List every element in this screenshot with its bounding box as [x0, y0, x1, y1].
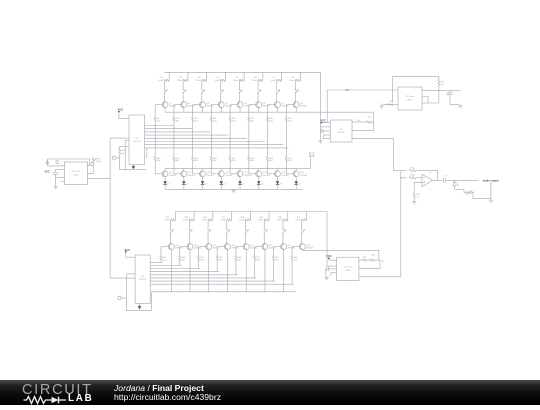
svg-text:2N3904: 2N3904 [212, 248, 220, 250]
wire U1 clock pin [125, 139, 129, 141]
svg-text:1kΩ: 1kΩ [288, 121, 292, 123]
wire column 6 upper [257, 80, 259, 88]
resistor R17 1kΩ [154, 157, 156, 162]
wire Q6 base lead [249, 104, 257, 106]
svg-text:74HC595: 74HC595 [133, 141, 141, 143]
wire U6 left rail [125, 274, 127, 311]
svg-text:10kΩ: 10kΩ [410, 175, 415, 177]
wire op-amp input trunk [400, 171, 402, 277]
wire base rail column 2 lower [173, 122, 175, 157]
wire Q11 emitter [202, 177, 204, 181]
resistor R33 [453, 183, 456, 186]
svg-text:1kΩ: 1kΩ [163, 259, 167, 261]
wire column 4 bus stub [224, 72, 226, 80]
wire Q11 base lead [193, 173, 201, 175]
svg-text:1kΩ: 1kΩ [176, 160, 180, 162]
wire column 2 bus stub [187, 72, 189, 80]
svg-text:2N3904: 2N3904 [169, 106, 177, 108]
wire bottom base rail 4 to bus [216, 261, 218, 272]
wire column 5 to Q5 [238, 94, 240, 102]
wire top bus into U3 pin 2 [321, 126, 331, 128]
svg-text:1kΩ: 1kΩ [232, 160, 236, 162]
wire Q8 emitter to sense bus [295, 108, 297, 113]
svg-text:1MΩ: 1MΩ [96, 161, 101, 163]
wire base rail column 5 lower [229, 122, 231, 157]
wire base rail column 4 lower [210, 122, 212, 157]
capacitor C2 10nF [53, 172, 59, 174]
svg-text:1kΩ: 1kΩ [250, 121, 254, 123]
resistor R25 10kΩ [119, 147, 121, 149]
wire non-inverting input [414, 182, 422, 192]
svg-text:LM555: LM555 [73, 174, 79, 176]
resistor R31 10kΩ [409, 177, 416, 180]
wire bottom data bus line 6 [150, 277, 256, 279]
svg-text:VCC: VCC [44, 170, 49, 173]
resistor R35 100Ω [189, 219, 194, 221]
svg-text:D8: D8 [299, 184, 301, 186]
svg-text:1kΩ: 1kΩ [157, 121, 161, 123]
switch SW4 [220, 88, 222, 91]
wire LED D8 to ground bus [295, 184, 297, 189]
svg-text:1kΩ: 1kΩ [219, 259, 223, 261]
wire bottom column 8 to Q24 [301, 234, 303, 244]
svg-text:2N3904: 2N3904 [225, 175, 233, 177]
transistor Q17 2N3904 [168, 244, 174, 250]
wire bottom column 1 upper [170, 220, 172, 228]
svg-text:LM555: LM555 [345, 270, 351, 272]
wire bottom base rail 8 [291, 247, 293, 256]
wire Q22 emitter drop [264, 250, 266, 292]
capacitor C7 [330, 265, 332, 267]
ground U4 right [459, 104, 461, 105]
wire sense bus drop to U3 [352, 112, 374, 131]
svg-text:1kΩ: 1kΩ [213, 121, 217, 123]
wire bottom column 1 to Q17 [170, 234, 172, 244]
wire bottom base rail 2 [179, 247, 181, 256]
logo LAB text [68, 393, 94, 404]
svg-text:100Ω: 100Ω [277, 220, 282, 222]
svg-text:100Ω: 100Ω [252, 80, 257, 82]
wire Q11 collector from collector bus [201, 169, 203, 171]
switch SW16 [301, 227, 303, 230]
resistor R12 1kΩ [210, 117, 212, 122]
wire Q14 emitter [258, 177, 260, 181]
svg-text:2N3904: 2N3904 [169, 175, 177, 177]
resistor R48 1kΩ [272, 256, 274, 261]
wire bottom base rail 1 to bus [160, 261, 162, 263]
capacitor C3 10nF [449, 91, 451, 93]
resistor R11 1kΩ [192, 117, 194, 122]
svg-text:2N3904: 2N3904 [175, 248, 183, 250]
svg-text:2N3904: 2N3904 [188, 175, 196, 177]
LED D8 [294, 181, 298, 184]
resistor R14 1kΩ [248, 117, 250, 122]
ground U2 [55, 185, 57, 186]
wire Q2 base lead [174, 104, 182, 106]
wire R27 to U4 pins [422, 85, 439, 103]
wire U5 loop top [359, 259, 363, 261]
wire U2 output to vertical trunk [87, 178, 110, 180]
wire VCC to U1 [119, 113, 129, 119]
resistor R37 100Ω [227, 219, 232, 221]
svg-text:D1: D1 [167, 184, 169, 186]
wire volume tap [454, 180, 456, 182]
wire LED D2 to ground bus [183, 184, 185, 189]
resistor R42 1kΩ [160, 256, 162, 261]
IC U3 74HC165 body [330, 120, 352, 142]
wire bottom column 2 upper [188, 220, 190, 228]
wire U4 output [422, 90, 460, 92]
svg-text:R29: R29 [368, 117, 371, 119]
wire serial input to U1 [110, 137, 129, 139]
wire vertical trunk [109, 138, 111, 278]
wire base rail to Q13 [229, 161, 231, 173]
resistor R35 [370, 259, 375, 261]
resistor R27 1kΩ [438, 80, 440, 86]
wire bottom column 6 upper [263, 220, 265, 228]
ground op-amp [413, 200, 415, 201]
wire drop to U3 VCC node [326, 90, 328, 122]
wire Q2 emitter to sense bus [183, 108, 185, 113]
wire Q24 base lead [292, 246, 301, 248]
transistor Q1 2N3904 [162, 102, 168, 108]
capacitor C6 [118, 296, 121, 299]
svg-text:74HC595: 74HC595 [139, 279, 147, 281]
resistor R43 1kΩ [179, 256, 181, 261]
wire Q17 base lead [161, 246, 170, 248]
wire LED D1 to ground bus [164, 184, 166, 189]
resistor R20 1kΩ [210, 157, 212, 162]
transistor Q21 2N3904 [243, 244, 249, 250]
ground U1 [132, 165, 134, 166]
LED D1 [163, 181, 167, 184]
transistor Q13 2N3904 [237, 171, 243, 177]
wire Q16 emitter [295, 177, 297, 181]
wire Q1 emitter to sense bus [164, 108, 166, 113]
wire Q6 emitter to sense bus [258, 108, 260, 113]
wire column 8 upper [295, 80, 297, 88]
wire column 6 bus stub [262, 72, 264, 80]
wire data bus line 8 [145, 147, 289, 149]
transistor Q15 2N3904 [274, 171, 280, 177]
wire column 7 upper [276, 80, 278, 88]
wire column 2 upper [182, 80, 184, 88]
wire bottom base rail 6 to bus [254, 261, 256, 278]
wire LED D4 to ground bus [220, 184, 222, 189]
wire Q1 base lead [155, 104, 163, 106]
capacitor C1 [112, 156, 115, 159]
wire bottom base rail 1 [160, 247, 162, 256]
ground U5 [326, 276, 328, 277]
wire bottom column 7 to Q23 [282, 234, 284, 244]
resistor R40 100Ω [283, 219, 288, 221]
wire pot wiper [87, 164, 93, 173]
wire bottom column 7 upper [282, 220, 284, 228]
wire Q12 emitter [220, 177, 222, 181]
resistor R23 1kΩ [266, 157, 268, 162]
wire column 6 to Q6 [257, 94, 259, 102]
wire U3 output drop to op-amp [393, 139, 395, 171]
resistor R32 1kΩ [413, 193, 415, 199]
wire control input to U4 [327, 89, 398, 91]
svg-text:1kΩ: 1kΩ [288, 160, 292, 162]
wire U2 pin 7 stub [61, 180, 65, 182]
wire bottom base rail 4 [216, 247, 218, 256]
wire LED ground bus [165, 188, 302, 190]
ground U4 left [381, 105, 383, 106]
svg-text:1kΩ: 1kΩ [269, 121, 273, 123]
svg-text:74HC165: 74HC165 [337, 132, 344, 134]
wire Q12 collector from collector bus [220, 169, 222, 171]
svg-text:1kΩ: 1kΩ [275, 259, 279, 261]
wire U3 output pin 1 chain [352, 121, 367, 123]
resistor R16 1kΩ [285, 117, 287, 122]
wire Q7 emitter to sense bus [276, 108, 278, 113]
IC U2 555 timer body [64, 162, 87, 184]
svg-text:R34: R34 [363, 256, 366, 258]
wire VCC to U6 [126, 253, 135, 257]
headphone jack J1 [464, 189, 466, 192]
wire bottom data bus line 5 [150, 274, 238, 276]
transistor Q2 2N3904 [181, 102, 187, 108]
wire Q21 emitter drop [245, 250, 247, 292]
svg-text:D2: D2 [186, 184, 188, 186]
wire Q21 base lead [236, 246, 245, 248]
wire Q5 base lead [230, 104, 238, 106]
svg-text:10k: 10k [357, 120, 360, 122]
wire base rail column 6 lower [248, 122, 250, 157]
wire bottom data bus line 2 [150, 265, 182, 267]
svg-text:1kΩ: 1kΩ [200, 259, 204, 261]
wire Q17 emitter drop [170, 250, 172, 292]
svg-text:D3: D3 [205, 184, 207, 186]
wire Q7 base lead [268, 104, 276, 106]
wire bottom column 8 upper [301, 220, 303, 228]
wire bottom base rail 3 to bus [197, 261, 199, 269]
wire column 5 upper [238, 80, 240, 88]
wire collector bus riser [309, 157, 311, 168]
resistor R19 1kΩ [192, 157, 194, 162]
resistor R10 1kΩ [173, 117, 175, 122]
logo resistor zigzag [24, 396, 52, 403]
wire bottom column 5 to Q21 [245, 234, 247, 244]
wire base rail column 4 [210, 105, 212, 117]
svg-text:2N3904: 2N3904 [244, 175, 252, 177]
transistor Q6 2N3904 [256, 102, 262, 108]
wire base rail column 3 lower [192, 122, 194, 157]
resistor R2 100Ω [183, 79, 188, 81]
svg-text:1kΩ: 1kΩ [176, 121, 180, 123]
wire Q14 base lead [249, 173, 257, 175]
svg-text:2N3904: 2N3904 [225, 106, 233, 108]
wire bottom column 6 bus stub [268, 212, 270, 220]
transistor Q7 2N3904 [274, 102, 280, 108]
node V+ flag [309, 153, 314, 156]
resistor R5 100Ω [239, 79, 244, 81]
op-amp OA1 [422, 174, 433, 186]
wire Q10 base lead [174, 173, 182, 175]
svg-text:D6: D6 [261, 184, 263, 186]
resistor R46 1kΩ [235, 256, 237, 261]
wire VCC to U5 [328, 259, 330, 260]
wire Q9 base lead [155, 173, 163, 175]
transistor Q3 2N3904 [199, 102, 205, 108]
svg-text:100Ω: 100Ω [177, 80, 182, 82]
wire U2 pin 2 stub [56, 169, 65, 171]
wire Q15 base lead [268, 173, 276, 175]
wire data bus line 1 [145, 125, 174, 127]
wire Q20 base lead [217, 246, 226, 248]
wire bottom column 3 upper [207, 220, 209, 228]
wire Q15 emitter [276, 177, 278, 181]
wire base rail column 7 [267, 105, 269, 117]
logo diode [52, 396, 59, 403]
switch SW8 [295, 88, 297, 91]
wire bottom VCC bus [175, 211, 327, 213]
ground U3 [320, 140, 322, 141]
wire column 4 to Q4 [220, 94, 222, 102]
resistor R22 1kΩ [248, 157, 250, 162]
svg-text:555 Timer: 555 Timer [343, 267, 352, 269]
wire column 3 upper [201, 80, 203, 88]
svg-text:1kΩ: 1kΩ [250, 160, 254, 162]
wire Q24 emitter to tone bus [302, 249, 378, 252]
transistor Q9 2N3904 [162, 171, 168, 177]
wire base rail column 2 [173, 105, 175, 117]
svg-text:1k: 1k [457, 184, 459, 186]
wire base rail column 6 [248, 105, 250, 117]
wire Q4 emitter to sense bus [220, 108, 222, 113]
transistor Q11 2N3904 [199, 171, 205, 177]
svg-text:2N3904: 2N3904 [269, 248, 277, 250]
wire base rail column 5 [229, 105, 231, 117]
transistor Q12 2N3904 [218, 171, 224, 177]
switch SW15 [282, 227, 284, 230]
resistor R39 100Ω [264, 219, 269, 221]
svg-text:100Ω: 100Ω [221, 220, 226, 222]
svg-text:2N3904: 2N3904 [300, 106, 308, 108]
svg-text:C8: C8 [381, 261, 383, 263]
wire cap rail U2 [55, 170, 57, 172]
wire bottom base rail 5 to bus [235, 261, 237, 275]
wire R34 to R35 [367, 259, 370, 261]
wire base rail column 7 lower [267, 122, 269, 157]
wire Q3 base lead [193, 104, 201, 106]
wire column 1 upper [163, 80, 165, 88]
wire Q23 base lead [273, 246, 282, 248]
wire column 8 bus stub [299, 72, 301, 80]
wire R25 rail [119, 154, 121, 169]
svg-text:100Ω: 100Ω [183, 220, 188, 222]
svg-text:1kΩ: 1kΩ [157, 160, 161, 162]
transistor Q20 2N3904 [224, 244, 230, 250]
wire U2 top loop [47, 159, 89, 166]
wire data bus line 2 [145, 128, 193, 130]
resistor R49 1kΩ [291, 256, 293, 261]
svg-text:LM555: LM555 [407, 100, 413, 102]
wire base rail to Q15 [267, 161, 269, 173]
wire collector bus row 2 [165, 168, 310, 170]
wire U5 output to op-amp [359, 276, 401, 278]
resistor R41 100Ω [302, 219, 307, 221]
wire data bus line 4 [145, 134, 229, 136]
switch SW3 [201, 88, 203, 91]
svg-text:1kΩ: 1kΩ [213, 160, 217, 162]
resistor R6 100Ω [258, 79, 263, 81]
resistor R3 100Ω [202, 79, 207, 81]
wire feedback to output node [416, 170, 438, 172]
svg-text:10kΩ: 10kΩ [410, 168, 415, 170]
wire Q16 base lead [286, 173, 294, 175]
resistor R28 with ground U4 [383, 104, 398, 106]
resistor R29 [367, 121, 372, 123]
wire data bus line 7 [145, 144, 284, 146]
wire bottom data bus line 1 [150, 261, 163, 263]
svg-text:VCC: VCC [124, 248, 130, 252]
LED D3 [201, 181, 205, 184]
wire bottom column 4 to Q20 [226, 234, 228, 244]
wire bottom base rail 2 to bus [179, 261, 181, 266]
wire base rail column 1 [154, 105, 156, 117]
svg-text:2N3904: 2N3904 [194, 248, 202, 250]
svg-text:2N3904: 2N3904 [300, 175, 308, 177]
LED D7 [276, 181, 280, 184]
resistor R34 100Ω [171, 219, 176, 221]
wire U1 ground rail [120, 169, 146, 171]
wire Q9 emitter [164, 177, 166, 181]
wire U1 latch rail [124, 140, 126, 169]
wire to jack [455, 186, 464, 189]
capacitor C4 [320, 127, 322, 131]
wire data bus line 6 [145, 141, 265, 143]
wire column 7 bus stub [281, 72, 283, 80]
svg-text:1k: 1k [416, 196, 418, 198]
svg-text:2N3904: 2N3904 [250, 248, 258, 250]
wire Q13 base lead [230, 173, 238, 175]
wire column 1 bus stub [168, 72, 170, 80]
switch SW1 [163, 88, 165, 91]
wire U5 pin stub [331, 271, 337, 273]
power VCC U2 [46, 161, 49, 164]
switch SW13 [245, 227, 247, 230]
switch SW5 [238, 88, 240, 91]
wire loop right side [359, 260, 380, 268]
wire audio output ground drop [490, 182, 492, 198]
resistor R24 1kΩ [285, 157, 287, 162]
wire Q23 emitter drop [283, 250, 285, 292]
wire jack to ground [471, 193, 491, 199]
svg-text:2N3904: 2N3904 [188, 106, 196, 108]
wire base rail to Q14 [248, 161, 250, 173]
svg-text:100Ω: 100Ω [164, 220, 169, 222]
IC U5 555 timer body [337, 257, 359, 280]
transistor Q22 2N3904 [262, 244, 268, 250]
svg-text:100Ω: 100Ω [202, 220, 207, 222]
wire bottom base rail 8 to bus [291, 261, 293, 285]
wire bottom data bus line 8 [150, 283, 294, 285]
wire tone bus drop to U5 [378, 250, 380, 260]
svg-text:100Ω: 100Ω [196, 80, 201, 82]
wire base rail to Q11 [192, 161, 194, 173]
wire U3 ground rail [320, 131, 322, 140]
wire Q4 base lead [211, 104, 219, 106]
capacitor C5 [443, 178, 445, 183]
transistor Q24 2N3904 [299, 244, 305, 250]
wire U6 latch pin [150, 294, 151, 296]
wire Q3 emitter to sense bus [202, 108, 204, 113]
wire Q5 emitter to sense bus [239, 108, 241, 113]
wire bottom column 2 bus stub [193, 212, 195, 220]
